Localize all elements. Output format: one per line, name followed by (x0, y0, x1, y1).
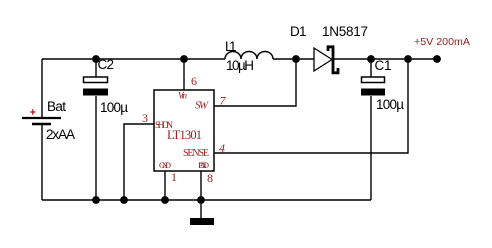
svg-text:LT1301: LT1301 (167, 128, 202, 142)
svg-text:SENSE: SENSE (183, 148, 209, 159)
svg-text:100µ: 100µ (376, 97, 404, 112)
svg-text:100µ: 100µ (100, 100, 128, 115)
svg-text:GND: GND (159, 160, 171, 170)
svg-text:D1: D1 (290, 24, 307, 39)
svg-text:1N5817: 1N5817 (322, 24, 368, 39)
svg-text:L1: L1 (225, 39, 237, 54)
svg-text:SW: SW (195, 100, 209, 112)
svg-text:8: 8 (207, 171, 213, 185)
svg-text:10µH: 10µH (226, 58, 254, 73)
svg-text:Vin: Vin (178, 91, 188, 101)
svg-text:1: 1 (171, 170, 177, 184)
svg-text:3: 3 (142, 111, 148, 125)
svg-text:+5V 200mA: +5V 200mA (414, 36, 470, 48)
svg-text:6: 6 (191, 74, 197, 88)
svg-text:C1: C1 (375, 58, 392, 73)
svg-text:2xAA: 2xAA (46, 127, 75, 142)
svg-text:PGND: PGND (198, 160, 209, 170)
svg-text:Bat: Bat (47, 99, 66, 114)
svg-text:7: 7 (220, 94, 227, 108)
svg-text:C2: C2 (98, 57, 115, 72)
svg-text:4: 4 (219, 141, 225, 155)
